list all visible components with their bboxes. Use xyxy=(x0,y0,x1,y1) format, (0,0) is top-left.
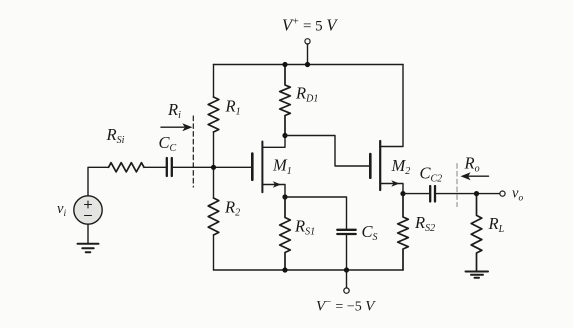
resistor RL xyxy=(471,194,482,272)
svg-text:vi: vi xyxy=(57,201,66,219)
svg-text:RL: RL xyxy=(488,214,505,235)
supply V+ terminal xyxy=(305,39,310,67)
transistor M2 xyxy=(370,65,403,194)
input resistance marker Ri (dashed line) xyxy=(192,116,194,187)
svg-text:Ri: Ri xyxy=(167,100,181,121)
node RS1 bottom dot xyxy=(282,267,287,272)
svg-text:M1: M1 xyxy=(272,156,292,177)
svg-text:RSi: RSi xyxy=(106,125,125,146)
capacitor CS xyxy=(337,230,355,234)
svg-text:V+ = 5 V: V+ = 5 V xyxy=(282,16,338,35)
wire top supply rail xyxy=(214,64,404,66)
wire M2 source to CC2 xyxy=(403,193,429,195)
resistor RS1 xyxy=(280,197,291,270)
node vo terminal xyxy=(500,191,505,196)
wire M1 source to CS xyxy=(285,197,347,229)
wire vi to ground xyxy=(87,224,89,243)
resistor R1 xyxy=(208,97,219,132)
voltage source vi xyxy=(74,196,102,224)
node RD1 top dot xyxy=(282,62,287,67)
output resistance marker Ro (dashed line) xyxy=(456,164,458,207)
svg-text:R2: R2 xyxy=(224,198,240,219)
node gate M1 junction dot xyxy=(211,165,216,170)
wire input source to RSi xyxy=(88,167,109,196)
wire R2 bottom to bottom rail xyxy=(213,235,215,270)
wire CS bottom to rail xyxy=(346,235,348,271)
output resistance arrow Ro xyxy=(466,175,489,177)
wire bottom supply rail xyxy=(214,269,404,271)
node CS bottom dot xyxy=(344,267,349,272)
svg-text:RS2: RS2 xyxy=(414,213,435,234)
capacitor CC2 xyxy=(430,186,435,202)
svg-text:R1: R1 xyxy=(225,96,241,117)
svg-text:RS1: RS1 xyxy=(294,217,315,238)
capacitor CC xyxy=(167,158,172,176)
svg-text:V− = −5 V: V− = −5 V xyxy=(316,297,376,315)
node output junction dot xyxy=(474,191,479,196)
wire M1 drain to M2 gate xyxy=(285,136,369,167)
wire CC2 to output terminal xyxy=(436,193,499,195)
ground (vi) xyxy=(78,244,99,252)
svg-text:vo: vo xyxy=(512,186,523,204)
node drain M1 junction dot xyxy=(282,133,287,138)
resistor RS2 xyxy=(398,194,409,270)
svg-text:M2: M2 xyxy=(391,156,411,177)
svg-text:RD1: RD1 xyxy=(295,83,318,104)
wire left bias branch upper xyxy=(213,65,215,98)
resistor R2 xyxy=(208,198,219,235)
svg-text:CC2: CC2 xyxy=(420,164,443,185)
supply V- terminal xyxy=(344,270,349,293)
resistor RD1 xyxy=(280,65,291,136)
svg-text:Ro: Ro xyxy=(464,154,480,175)
wire CC to M1 gate xyxy=(173,166,251,168)
input resistance arrow Ri xyxy=(161,126,184,128)
node M2 source junction dot xyxy=(400,191,405,196)
transistor M1 xyxy=(252,136,285,198)
resistor RSi xyxy=(109,163,145,172)
node M1 source junction dot xyxy=(282,194,287,199)
svg-text:CS: CS xyxy=(362,222,378,243)
wire RSi to CC xyxy=(144,166,166,168)
svg-text:CC: CC xyxy=(159,133,177,154)
wire R1 bottom to gate node xyxy=(213,132,215,198)
ground (RL) xyxy=(466,272,489,278)
